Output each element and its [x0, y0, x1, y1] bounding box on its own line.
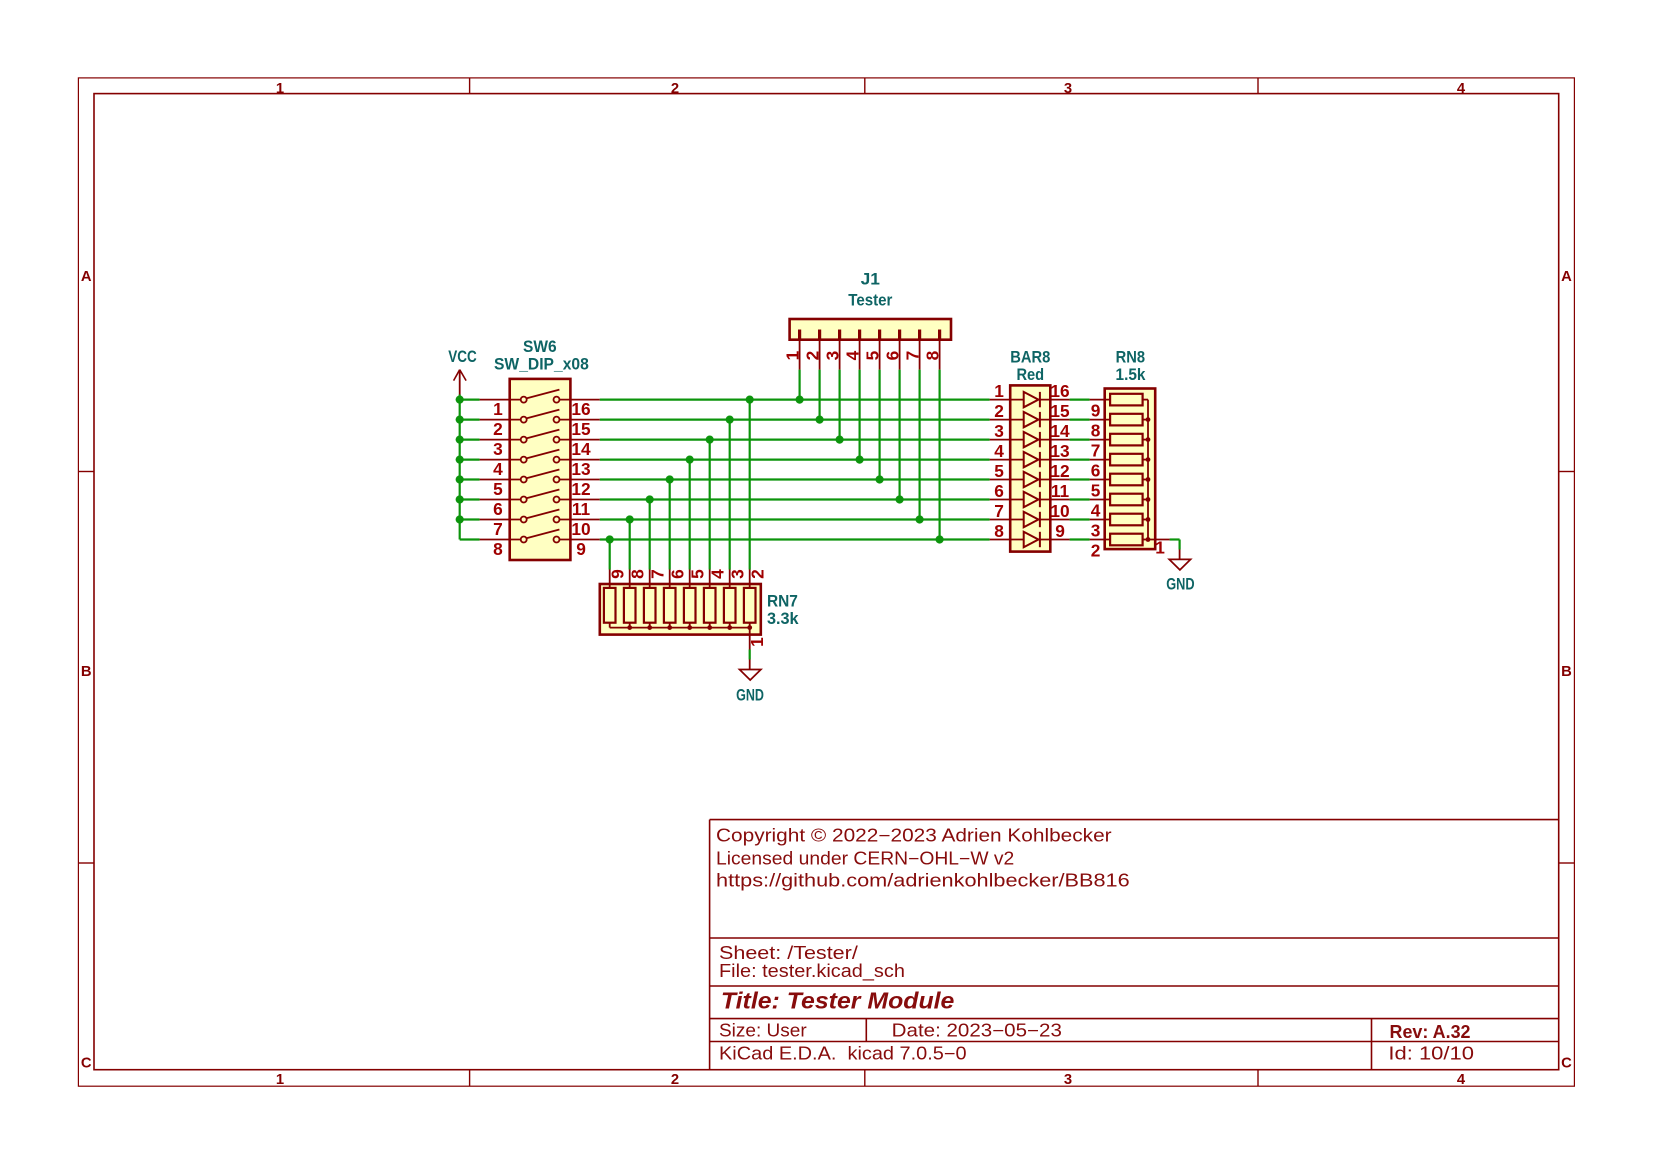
- svg-text:14: 14: [1050, 421, 1070, 441]
- svg-text:J1: J1: [861, 271, 880, 289]
- svg-text:4: 4: [493, 459, 503, 479]
- svg-text:1: 1: [276, 81, 284, 97]
- svg-text:6: 6: [667, 569, 687, 579]
- svg-text:GND: GND: [1166, 576, 1194, 594]
- svg-text:SW_DIP_x08: SW_DIP_x08: [494, 356, 589, 374]
- svg-text:3: 3: [994, 421, 1004, 441]
- svg-text:4: 4: [1457, 1072, 1466, 1088]
- svg-text:1: 1: [276, 1072, 284, 1088]
- svg-text:6: 6: [493, 499, 503, 519]
- svg-text:7: 7: [994, 501, 1004, 521]
- svg-text:Id: 10/10: Id: 10/10: [1388, 1044, 1474, 1064]
- svg-text:14: 14: [571, 439, 591, 459]
- svg-text:11: 11: [1051, 481, 1070, 501]
- svg-text:5: 5: [493, 479, 503, 499]
- svg-text:2: 2: [493, 419, 503, 439]
- svg-text:2: 2: [747, 569, 767, 579]
- svg-text:1: 1: [994, 381, 1004, 401]
- svg-text:1: 1: [493, 399, 503, 419]
- svg-text:4: 4: [1091, 501, 1101, 521]
- svg-text:Size: User: Size: User: [719, 1021, 807, 1041]
- svg-text:13: 13: [571, 459, 590, 479]
- svg-text:15: 15: [571, 419, 591, 439]
- svg-text:1: 1: [782, 350, 802, 360]
- svg-text:B: B: [81, 664, 92, 680]
- svg-text:RN7: RN7: [767, 593, 798, 611]
- svg-text:Copyright © 2022−2023 Adrien K: Copyright © 2022−2023 Adrien Kohlbecker: [716, 825, 1112, 845]
- svg-text:8: 8: [627, 569, 647, 579]
- svg-text:3: 3: [727, 569, 747, 579]
- svg-text:SW6: SW6: [523, 338, 557, 356]
- svg-text:VCC: VCC: [448, 348, 477, 366]
- svg-text:7: 7: [902, 351, 922, 361]
- svg-text:3.3k: 3.3k: [767, 610, 799, 628]
- svg-text:10: 10: [1050, 501, 1069, 521]
- svg-text:7: 7: [493, 519, 503, 539]
- svg-text:KiCad E.D.A. kicad 7.0.5−0: KiCad E.D.A. kicad 7.0.5−0: [719, 1044, 967, 1064]
- svg-text:3: 3: [1064, 81, 1072, 97]
- svg-text:GND: GND: [736, 687, 764, 705]
- svg-text:16: 16: [1050, 381, 1069, 401]
- svg-text:15: 15: [1050, 401, 1070, 421]
- svg-text:Date: 2023−05−23: Date: 2023−05−23: [892, 1021, 1062, 1041]
- svg-text:4: 4: [707, 569, 727, 579]
- svg-text:8: 8: [994, 521, 1004, 541]
- svg-text:Tester: Tester: [848, 291, 893, 309]
- svg-text:4: 4: [994, 441, 1004, 461]
- svg-text:https://github.com/adrienkohlb: https://github.com/adrienkohlbecker/BB81…: [716, 871, 1130, 891]
- svg-text:8: 8: [922, 350, 942, 360]
- svg-text:2: 2: [1091, 541, 1101, 561]
- svg-text:9: 9: [1091, 401, 1101, 421]
- svg-text:3: 3: [1064, 1072, 1072, 1088]
- svg-text:9: 9: [576, 539, 586, 559]
- svg-text:A: A: [1561, 269, 1572, 285]
- svg-text:8: 8: [1091, 421, 1101, 441]
- svg-text:C: C: [81, 1056, 92, 1072]
- svg-text:A: A: [81, 269, 92, 285]
- svg-text:Rev: A.32: Rev: A.32: [1390, 1022, 1471, 1042]
- svg-text:3: 3: [493, 439, 503, 459]
- svg-text:4: 4: [842, 350, 862, 360]
- svg-text:1: 1: [747, 637, 767, 647]
- svg-text:2: 2: [671, 81, 679, 97]
- svg-text:1.5k: 1.5k: [1116, 366, 1147, 384]
- svg-text:6: 6: [1091, 461, 1101, 481]
- svg-text:6: 6: [882, 351, 902, 361]
- svg-text:C: C: [1561, 1056, 1572, 1072]
- svg-text:2: 2: [802, 351, 822, 361]
- svg-text:11: 11: [572, 499, 591, 519]
- svg-text:Licensed under CERN−OHL−W v2: Licensed under CERN−OHL−W v2: [716, 849, 1014, 869]
- svg-text:File: tester.kicad_sch: File: tester.kicad_sch: [719, 961, 905, 982]
- svg-text:BAR8: BAR8: [1010, 348, 1050, 366]
- svg-text:3: 3: [1091, 521, 1101, 541]
- svg-text:7: 7: [647, 569, 667, 579]
- svg-text:12: 12: [571, 479, 590, 499]
- svg-text:5: 5: [1091, 481, 1101, 501]
- svg-text:12: 12: [1050, 461, 1069, 481]
- svg-text:9: 9: [1055, 521, 1065, 541]
- svg-text:2: 2: [994, 401, 1004, 421]
- svg-text:4: 4: [1457, 81, 1466, 97]
- svg-text:Title: Tester Module: Title: Tester Module: [721, 988, 955, 1014]
- svg-text:RN8: RN8: [1116, 348, 1145, 366]
- svg-text:1: 1: [1155, 537, 1165, 557]
- svg-text:5: 5: [687, 569, 707, 579]
- svg-text:10: 10: [571, 519, 590, 539]
- svg-text:5: 5: [862, 350, 882, 360]
- svg-text:3: 3: [822, 351, 842, 361]
- svg-text:2: 2: [671, 1072, 679, 1088]
- svg-text:B: B: [1561, 664, 1572, 680]
- svg-text:7: 7: [1091, 441, 1101, 461]
- svg-text:13: 13: [1050, 441, 1069, 461]
- svg-text:Red: Red: [1016, 366, 1044, 384]
- svg-text:16: 16: [571, 399, 590, 419]
- svg-text:9: 9: [607, 569, 627, 579]
- svg-text:8: 8: [493, 539, 503, 559]
- svg-text:6: 6: [994, 481, 1004, 501]
- svg-text:5: 5: [994, 461, 1004, 481]
- svg-text:Sheet: /Tester/: Sheet: /Tester/: [719, 943, 858, 963]
